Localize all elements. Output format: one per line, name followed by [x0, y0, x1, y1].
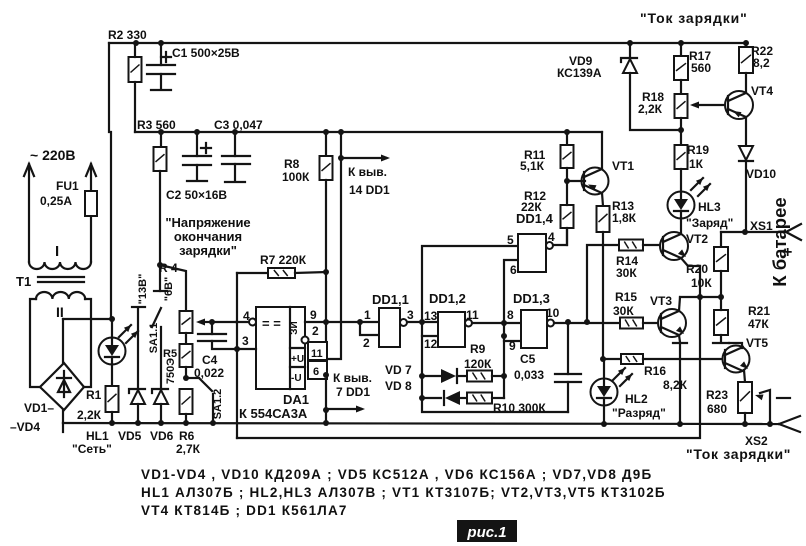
svg-text:DD1,2: DD1,2: [429, 291, 466, 306]
svg-text:1: 1: [364, 308, 371, 322]
wire HL2 to rail: [603, 406, 605, 424]
node pin6/bus: [323, 372, 329, 378]
svg-text:+U: +U: [291, 354, 304, 365]
svg-text:VD5: VD5: [118, 429, 142, 443]
VT4 emitter arrow PNP: [733, 111, 742, 117]
wire DD1.2 out to DD1.3: [472, 322, 521, 324]
fuse FU1: [85, 191, 97, 216]
svg-text:R6: R6: [179, 429, 195, 443]
wire top +V rail: [109, 42, 746, 44]
svg-text:10К: 10К: [691, 276, 712, 290]
svg-text:VD 8: VD 8: [385, 379, 412, 393]
dash 13V stub: [132, 306, 145, 308]
svg-text:HL3: HL3: [698, 200, 721, 214]
svg-text:C1 500×25В: C1 500×25В: [172, 46, 240, 60]
svg-text:DD1,3: DD1,3: [513, 291, 550, 306]
node R7/bus: [323, 269, 329, 275]
svg-text:1К: 1К: [689, 157, 704, 171]
node C5 top: [565, 319, 571, 325]
svg-text:4: 4: [243, 309, 250, 323]
svg-text:"6В": "6В": [163, 277, 175, 302]
wire to R16: [603, 358, 621, 360]
svg-text:SA1.2: SA1.2: [212, 389, 224, 420]
node R17 top: [678, 40, 684, 46]
wire R3 top lead: [160, 132, 162, 147]
wire second +9V rail: [135, 131, 602, 133]
node C1 top: [158, 40, 164, 46]
DA1 pin11 box: [308, 342, 327, 360]
svg-text:VD6: VD6: [150, 429, 174, 443]
HL2 emission arrows: [613, 368, 625, 380]
svg-text:0,25А: 0,25А: [40, 194, 72, 208]
DA1 pin6 box: [308, 361, 327, 379]
svg-text:DA1: DA1: [283, 392, 309, 407]
svg-text:6: 6: [510, 263, 517, 277]
node R18/VD9: [678, 127, 684, 133]
svg-text:"Разряд": "Разряд": [612, 406, 666, 420]
node R3 bottom: [157, 262, 163, 268]
transistor VT2 NPN: [660, 232, 688, 260]
wire R1 to rail: [111, 412, 113, 423]
svg-text:R16: R16: [644, 364, 666, 378]
connector XS1 fork: [786, 224, 801, 232]
node R11/R12/base: [564, 178, 570, 184]
svg-text:5,1К: 5,1К: [520, 159, 545, 173]
svg-text:2,7К: 2,7К: [176, 442, 201, 456]
wire bottom minus rail: [63, 423, 779, 424]
svg-text:I: I: [55, 243, 59, 260]
resistor R1: [106, 386, 119, 412]
resistor R22 body: [739, 47, 753, 73]
R23 wiper arrow: [760, 390, 770, 424]
svg-text:–VD4: –VD4: [10, 420, 40, 434]
node R6/rail: [183, 420, 189, 426]
wire R4-R5: [185, 333, 187, 344]
switch SA1.2 arm: [186, 377, 199, 379]
resistor R6: [180, 389, 193, 414]
transistor VT3 NPN: [658, 309, 686, 337]
svg-text:VD10: VD10: [746, 167, 776, 181]
resistor R16: [621, 354, 643, 364]
svg-text:VT4 КТ814Б ; DD1 К561ЛА7: VT4 КТ814Б ; DD1 К561ЛА7: [141, 503, 348, 518]
resistor R8 body: [320, 156, 333, 180]
wire VT5 emitter to R23: [744, 370, 745, 382]
svg-text:9: 9: [310, 308, 317, 322]
wire R4 wiper to DA1 pin4: [212, 321, 236, 323]
node pin9 jog: [501, 333, 507, 339]
DD1.4 output circle: [546, 242, 553, 249]
VT3 emitter arrow: [676, 326, 684, 334]
node R1/rail: [109, 420, 115, 426]
svg-text:К выв.: К выв.: [333, 371, 372, 385]
R4 wiper arrow: [200, 321, 212, 323]
wire R5-R6: [185, 367, 187, 378]
node VD7 row: [419, 373, 425, 379]
C2 bottom bar: [187, 180, 207, 182]
svg-text:C2 50×16В: C2 50×16В: [166, 188, 227, 202]
C1 plates: [147, 64, 175, 66]
node R8 top: [323, 129, 329, 135]
svg-text:R23: R23: [706, 388, 728, 402]
wire pin3 into DA1: [237, 348, 256, 350]
wire VT3 emitter: [679, 335, 680, 342]
node C2 top: [194, 129, 200, 135]
svg-text:DD1,4: DD1,4: [516, 211, 554, 226]
VT5 emitter arrow: [740, 361, 748, 369]
DD1.1 output circle: [400, 319, 407, 326]
svg-text:1,8К: 1,8К: [612, 211, 637, 225]
svg-text:0,022: 0,022: [194, 366, 224, 380]
node R20/R21: [718, 294, 724, 300]
rheostat R23: [738, 382, 752, 413]
svg-text:ЗИ: ЗИ: [289, 321, 300, 334]
svg-text:= =: = =: [262, 316, 281, 331]
switch SA1.1 arm: [152, 308, 161, 327]
zener VD5 symbol: [129, 389, 145, 393]
resistor R22: [745, 43, 747, 47]
svg-text:HL2: HL2: [625, 392, 648, 406]
wire DD1.4 out to R12: [553, 228, 567, 245]
resistor R10: [467, 393, 492, 404]
wire SA1.2 to rail: [212, 394, 214, 423]
svg-text:R7 220К: R7 220К: [260, 253, 307, 267]
capacitor C4: [211, 322, 213, 334]
node VD10/XS1: [742, 229, 748, 235]
svg-text:8: 8: [507, 308, 514, 322]
R18 wiper arrow from VT4 base: [694, 104, 729, 106]
svg-text:К выв.: К выв.: [348, 165, 387, 179]
wire R2 bottom lead: [134, 82, 136, 132]
svg-text:FU1: FU1: [56, 179, 79, 193]
svg-text:R10 300К: R10 300К: [493, 401, 546, 415]
svg-text:8,2К: 8,2К: [663, 378, 688, 392]
svg-text:R2 330: R2 330: [108, 28, 147, 42]
zener VD6 symbol: [152, 389, 168, 393]
op-amp DA1 K554SA3A: [256, 307, 305, 389]
resistor R21: [714, 310, 728, 335]
svg-text:3: 3: [242, 334, 249, 348]
node pin1/pin2 split: [357, 319, 363, 325]
wire base VT1: [567, 180, 585, 182]
diode VD7: [422, 375, 441, 377]
transistor VT4 PNP: [725, 91, 753, 119]
wire DD1.1 out to DD1.2: [407, 321, 438, 323]
wire R6 to rail: [185, 414, 187, 423]
wire R15 to VT3 base: [643, 322, 662, 324]
wire left feed to bridge output: [110, 132, 112, 319]
wire to DD1.1 pin2: [360, 322, 379, 335]
wire VT3 collector up: [679, 297, 680, 311]
svg-text:14 DD1: 14 DD1: [349, 183, 390, 197]
svg-text:VD1-VD4 , VD10 КД209А ; VD5 КС: VD1-VD4 , VD10 КД209А ; VD5 КС512А , VD6…: [141, 467, 652, 482]
HL3 emission arrows: [691, 178, 703, 190]
svg-text:VT2: VT2: [686, 232, 708, 246]
diode VD8: [422, 397, 441, 399]
svg-text:R1: R1: [86, 388, 102, 402]
svg-text:"Заряд": "Заряд": [686, 216, 733, 230]
svg-text:R15: R15: [615, 290, 637, 304]
wire R21 bottom: [720, 335, 722, 342]
svg-text:47К: 47К: [748, 317, 769, 331]
VT2 emitter arrow: [678, 249, 686, 257]
C1 bottom bar: [151, 89, 171, 91]
node HL2/rail: [601, 421, 607, 427]
transformer T1 winding I: [29, 262, 91, 269]
svg-text:10: 10: [546, 306, 560, 320]
node VD6/rail: [158, 420, 164, 426]
wire R17-R18: [680, 80, 682, 94]
svg-text:VT4: VT4: [751, 84, 773, 98]
DD1.2 output circle: [465, 320, 472, 327]
svg-text:C5: C5: [520, 352, 536, 366]
wire to DD1.3 pin9: [504, 323, 521, 341]
wire riser to DA1 pin11: [327, 132, 341, 359]
wire VT1 emitter to R13: [602, 193, 603, 206]
resistor R11 body: [561, 145, 574, 168]
wire R20 top: [720, 232, 722, 247]
svg-text:VT1: VT1: [612, 159, 634, 173]
wire VD10 to XS1 node: [745, 162, 747, 232]
resistor R9: [467, 371, 492, 382]
svg-text:HL1: HL1: [86, 429, 109, 443]
node R9/bus: [501, 373, 507, 379]
node R22 top: [743, 40, 749, 46]
wire R8/DA1 bus down: [325, 180, 327, 423]
svg-text:R8: R8: [284, 157, 300, 171]
svg-text:7 DD1: 7 DD1: [336, 385, 370, 399]
svg-text:DD1,1: DD1,1: [372, 292, 409, 307]
zener VD6 branch: [160, 327, 162, 390]
svg-text:R9: R9: [470, 342, 486, 356]
wire R13 down to R16 node: [602, 232, 604, 359]
node 14DD1 riser top: [338, 129, 344, 135]
node riser/gate out: [584, 319, 590, 325]
wire R16 to VT5 base: [643, 358, 726, 360]
svg-text:4: 4: [548, 230, 555, 244]
wire winding II right to bridge: [84, 299, 91, 387]
node R11 top: [564, 129, 570, 135]
svg-text:R3 560: R3 560: [137, 118, 176, 132]
svg-text:~ 220В: ~ 220В: [30, 147, 76, 163]
wire VD7/VD8 bus down to C5: [422, 336, 568, 412]
node R3/wire2: [158, 129, 164, 135]
node DD1.2 inputs: [419, 319, 425, 325]
wire R19 to HL3: [680, 169, 682, 192]
svg-text:R21: R21: [748, 304, 770, 318]
svg-text:5: 5: [507, 233, 514, 247]
node C3 top: [232, 129, 238, 135]
VT1 emitter arrow PNP: [588, 185, 597, 191]
svg-text:К 554СА3А: К 554СА3А: [239, 406, 308, 421]
node 14DD1 arrow: [338, 155, 344, 161]
resistor R3: [154, 147, 167, 171]
svg-text:30К: 30К: [616, 266, 637, 280]
wire R3 to node: [159, 171, 161, 265]
svg-text:0,033: 0,033: [514, 368, 544, 382]
resistor R5: [180, 344, 193, 367]
arrow mains right: [90, 164, 92, 262]
svg-text:C4: C4: [202, 353, 218, 367]
svg-text:13: 13: [424, 309, 438, 323]
node VD5/rail: [135, 420, 141, 426]
svg-text:КС139А: КС139А: [557, 66, 602, 80]
wire bridge minus to rail: [62, 410, 64, 423]
gate DD1.2: [438, 312, 465, 347]
svg-text:VT3: VT3: [650, 294, 672, 308]
node SA1.2/rail: [210, 420, 216, 426]
svg-text:11: 11: [466, 308, 479, 322]
resistor R19: [675, 145, 688, 169]
resistor R2: [129, 57, 142, 82]
potentiometer R18: [675, 94, 688, 118]
svg-text:"Сеть": "Сеть": [72, 442, 112, 456]
svg-text:2: 2: [363, 336, 370, 350]
transistor VT5 NPN: [723, 346, 750, 373]
node R23/rail: [742, 421, 748, 427]
svg-text:750Э: 750Э: [165, 358, 177, 384]
dash 6V stub: [159, 265, 161, 291]
figure label ris.1: [457, 520, 517, 542]
wire HL2 top: [603, 359, 605, 378]
bridge rectifier VD1-VD4: [40, 363, 84, 410]
C2 plates: [183, 155, 211, 157]
wire VT1 collector up: [601, 132, 603, 169]
wire R17 top: [680, 43, 682, 56]
wire VT3 emitter to rail: [679, 343, 681, 424]
svg-text:100К: 100К: [282, 170, 310, 184]
resistor R20: [714, 247, 728, 271]
node R23 wiper/rail: [767, 421, 773, 427]
svg-text:"Напряжение: "Напряжение: [165, 215, 250, 230]
svg-text:2,2К: 2,2К: [638, 102, 663, 116]
wire HL3 to VT2 collector: [680, 218, 682, 233]
wire node to R4: [160, 265, 186, 311]
VT3 emitter bar: [673, 342, 687, 344]
svg-text:окончания: окончания: [174, 229, 242, 244]
wire R2 top lead: [134, 43, 136, 57]
node wiper/C4: [209, 319, 215, 325]
node VD9 top: [627, 40, 633, 46]
wire winding II left to bridge: [30, 299, 40, 387]
wire R14 to VT2 base: [643, 244, 664, 246]
svg-text:8,2: 8,2: [753, 56, 770, 70]
HL1 emission arrows: [119, 325, 131, 337]
svg-text:зарядки": зарядки": [179, 243, 237, 258]
DA1 pin2 output circle: [302, 337, 309, 344]
svg-text:9: 9: [509, 339, 516, 353]
node R13/R16/HL2: [600, 356, 606, 362]
wire to DD1.2 pin12: [422, 322, 438, 336]
wire C4 to pin3: [212, 341, 237, 349]
wire XS1 row: [721, 231, 786, 233]
wire R18-R19: [680, 118, 682, 145]
resistor R14: [619, 240, 643, 251]
gate DD1.4: [518, 234, 546, 272]
wire VT2 emitter: [681, 258, 700, 266]
resistor R15 body: [620, 318, 643, 329]
transformer core: [38, 277, 84, 282]
svg-text:120К: 120К: [464, 357, 492, 371]
zener VD9 symbol: [621, 58, 637, 62]
wire under-route to R7 net: [237, 266, 700, 438]
node VD8 row: [419, 395, 425, 401]
resistor R17: [674, 56, 688, 80]
diode VD10: [739, 146, 753, 160]
svg-text:2,2К: 2,2К: [77, 408, 102, 422]
wire DD1.3 out to R15: [554, 322, 620, 324]
resistor R7 feedback: [237, 272, 268, 274]
svg-text:VD1–: VD1–: [24, 401, 54, 415]
resistor R12: [561, 205, 574, 228]
svg-text:2: 2: [312, 324, 319, 338]
svg-text:SA1.1: SA1.1: [148, 323, 160, 354]
zener VD5 branch: [137, 308, 139, 390]
svg-text:К батарее: К батарее: [769, 197, 790, 286]
svg-text:-U: -U: [291, 373, 302, 384]
wire VT3 collector row: [680, 296, 721, 298]
resistor R13: [597, 206, 610, 232]
wire HL1 to R1: [111, 364, 113, 386]
svg-text:560: 560: [691, 61, 711, 75]
connector XS2 fork: [779, 416, 800, 424]
svg-text:рис.1: рис.1: [466, 524, 506, 541]
wire DA1 pin9 to DD1.1: [305, 321, 379, 323]
transformer T1 winding II: [36, 292, 85, 299]
svg-text:"Ток зарядки": "Ток зарядки": [686, 446, 791, 462]
wire R22 to VT4: [745, 73, 747, 92]
node VT2e/VT3c row: [697, 294, 703, 300]
wire left feed upper: [108, 43, 110, 132]
VT1 circle: [582, 168, 609, 195]
node VT3/rail: [677, 421, 683, 427]
svg-text:12: 12: [424, 337, 438, 351]
node bridge+ / HL1: [109, 316, 115, 322]
node pin9/bus: [323, 319, 329, 325]
DD1.3 output circle: [547, 320, 554, 327]
svg-text:3: 3: [407, 308, 414, 322]
wire bridge plus output to HL1 node: [63, 318, 112, 320]
svg-text:II: II: [56, 304, 64, 320]
VT5 collector to bar: [729, 343, 742, 348]
svg-text:Т1: Т1: [16, 274, 31, 289]
svg-text:6: 6: [313, 366, 319, 378]
node pin3 junction: [234, 346, 240, 352]
node R2 top: [133, 40, 139, 46]
node 7DD1 arrow: [323, 407, 329, 413]
wire bridge plus riser: [62, 319, 64, 363]
wire DD1.4 input pin6: [504, 260, 520, 323]
dash minus: [777, 397, 790, 399]
tick rail left end: [62, 423, 64, 432]
LED HL2: [591, 379, 618, 406]
svg-text:R20: R20: [686, 262, 708, 276]
R21 bottom bar: [713, 342, 729, 344]
node R5/R6/SA1.2: [183, 375, 189, 381]
svg-text:680: 680: [707, 402, 727, 416]
wire R23 to rail: [744, 413, 746, 424]
svg-text:"13В": "13В": [137, 274, 149, 305]
svg-text:VT5: VT5: [746, 336, 768, 350]
resistor R7 body: [268, 268, 295, 278]
svg-text:30К: 30К: [613, 304, 634, 318]
wire R12 to DD1.4 out: [566, 228, 568, 245]
wire HL1 top lead: [111, 319, 113, 338]
svg-text:11: 11: [311, 348, 323, 360]
gate DD1.3: [521, 310, 547, 348]
svg-text:"Ток зарядки": "Ток зарядки": [640, 10, 748, 26]
svg-text:C3 0,047: C3 0,047: [214, 118, 263, 132]
node DD1.3 inputs: [501, 320, 507, 326]
